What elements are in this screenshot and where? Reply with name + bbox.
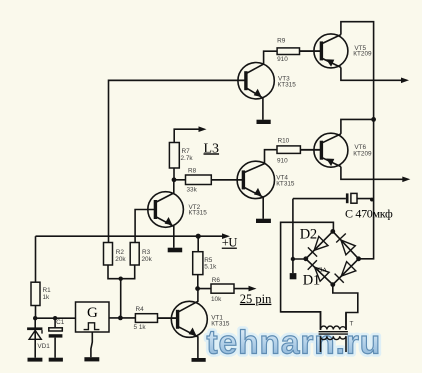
svg-text:910: 910	[277, 158, 288, 165]
svg-text:10k: 10k	[211, 296, 222, 303]
svg-text:R4: R4	[136, 306, 145, 313]
svg-text:C1: C1	[56, 319, 65, 326]
svg-text:R2: R2	[116, 249, 125, 256]
svg-text:33k: 33k	[187, 187, 198, 194]
svg-text:VD: VD	[317, 266, 327, 273]
svg-text:R10: R10	[278, 137, 290, 144]
svg-text:25 pin: 25 pin	[240, 292, 272, 306]
svg-text:КТ315: КТ315	[276, 181, 295, 188]
svg-text:КТ315: КТ315	[189, 210, 208, 217]
svg-text:L3: L3	[204, 141, 220, 156]
svg-text:R9: R9	[277, 38, 286, 45]
svg-text:1k: 1k	[43, 294, 51, 301]
svg-text:R1: R1	[43, 287, 52, 294]
svg-text:КТ315: КТ315	[278, 82, 297, 89]
svg-text:КТ209: КТ209	[353, 50, 372, 57]
svg-text:5.1k: 5.1k	[204, 263, 217, 270]
svg-text:+U: +U	[222, 236, 238, 250]
svg-text:R6: R6	[212, 277, 221, 284]
svg-text:D1: D1	[303, 272, 320, 288]
svg-text:20k: 20k	[115, 256, 126, 263]
svg-text:Т: Т	[350, 321, 354, 328]
svg-text:С 470мкф: С 470мкф	[345, 207, 393, 221]
svg-text:D2: D2	[300, 227, 317, 243]
svg-text:910: 910	[277, 56, 288, 63]
svg-text:R3: R3	[142, 249, 151, 256]
svg-text:КТ315: КТ315	[211, 320, 230, 327]
svg-text:VD1: VD1	[37, 343, 50, 350]
svg-text:tehnarn.ru: tehnarn.ru	[207, 325, 382, 362]
svg-text:КТ209: КТ209	[353, 150, 372, 157]
svg-text:20k: 20k	[142, 256, 153, 263]
svg-text:5 1k: 5 1k	[134, 324, 147, 331]
svg-text:R8: R8	[188, 168, 197, 175]
svg-text:G: G	[87, 305, 98, 321]
svg-text:2.7k: 2.7k	[181, 155, 194, 162]
